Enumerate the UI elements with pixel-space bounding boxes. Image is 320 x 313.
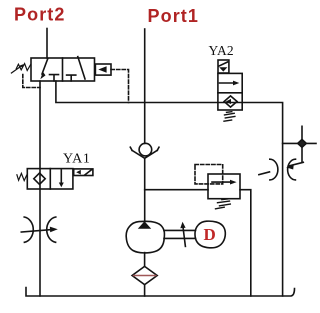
filter F1 diamond — [132, 266, 157, 284]
valve YA2 top cell arrow — [220, 81, 240, 86]
valve V1 left cell flow arrow — [40, 58, 48, 79]
throttle valve right — [259, 159, 303, 180]
pilot dashed line from V1 solenoid — [111, 70, 129, 103]
wire filter to tank line — [144, 285, 146, 296]
wire gauge vertical — [301, 126, 303, 161]
wire gauge branch — [283, 142, 316, 144]
valve YA1 solenoid right — [74, 169, 93, 176]
valve YA2 body — [218, 73, 242, 110]
valve V1 solenoid right — [95, 64, 111, 75]
valve YA2 spring bottom — [224, 112, 235, 122]
svg-text:Port1: Port1 — [148, 6, 200, 26]
valve V1 right cell flow path — [78, 57, 85, 79]
wire node B down + main horizontal to right branch down — [56, 81, 283, 296]
relief valve body — [208, 174, 240, 199]
pump P1 outlet triangle — [138, 221, 151, 229]
wire Port2 stub — [46, 29, 48, 59]
valve V1 left cell blocked port T — [50, 75, 59, 81]
wire Port1 vertical — [144, 29, 146, 143]
valve YA2 bottom cell pilot check diamond — [224, 96, 237, 107]
check valve on Port1 line — [130, 143, 159, 158]
valve YA2 solenoid top — [218, 60, 229, 73]
valve V1 3/2 directional body — [31, 58, 95, 81]
wire relief inlet — [145, 189, 208, 191]
valve YA1 right cell down arrow — [59, 170, 64, 187]
motor M circle — [195, 221, 225, 248]
valve V1 right cell blocked port T — [67, 75, 76, 81]
filter element line — [134, 275, 156, 277]
relief valve pilot dashed box — [195, 165, 223, 184]
svg-text:D: D — [204, 225, 216, 244]
relief valve spring — [216, 199, 231, 209]
shaft pump-motor — [164, 230, 196, 238]
relief valve internal arrow — [212, 180, 237, 185]
pilot dashed line left of V1 — [23, 75, 40, 88]
svg-text:YA2: YA2 — [209, 43, 234, 58]
svg-text:YA1: YA1 — [63, 151, 90, 166]
shaft arrow — [180, 222, 185, 247]
gauge element diamond on right branch — [298, 140, 307, 148]
pump P1 circle — [126, 221, 164, 253]
wire tank bottom line — [26, 288, 295, 297]
svg-text:Port2: Port2 — [14, 5, 66, 25]
valve YA1 check diamond — [34, 173, 45, 184]
wire check valve to pump — [144, 158, 146, 221]
wire pump to filter — [144, 253, 146, 267]
wire relief outlet — [240, 190, 251, 296]
valve YA1 body — [27, 169, 73, 189]
valve V1 spring left with adjust arrow — [11, 64, 30, 73]
valve YA1 spring left — [17, 173, 27, 180]
wire node A vertical (left line) — [39, 81, 41, 296]
throttle valve left — [21, 217, 58, 242]
